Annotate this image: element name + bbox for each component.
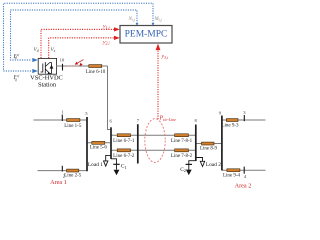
svg-text:Line 2-5: Line 2-5 (64, 173, 82, 178)
svg-text:Line 1-5: Line 1-5 (64, 124, 82, 129)
svg-text:Line 9-4: Line 9-4 (223, 173, 241, 178)
svg-text:Line 7-8-2: Line 7-8-2 (171, 154, 193, 159)
svg-text:Load 2: Load 2 (206, 162, 221, 168)
svg-text:Line 6-7-1: Line 6-7-1 (113, 139, 135, 144)
svg-text:Line 6-7-2: Line 6-7-2 (113, 154, 135, 159)
svg-text:Line 8-9: Line 8-9 (200, 147, 218, 152)
svg-text:Line 9-3: Line 9-3 (221, 124, 239, 129)
svg-text:Line 7-8-1: Line 7-8-1 (171, 139, 193, 144)
svg-text:Ptie-Line: Ptie-Line (159, 116, 177, 122)
svg-text:C2: C2 (180, 167, 186, 173)
svg-text:Load 1: Load 1 (88, 162, 103, 168)
svg-text:Station: Station (38, 81, 57, 88)
svg-text:10: 10 (60, 57, 65, 62)
svg-text:PEM-MPC: PEM-MPC (125, 30, 168, 40)
svg-text:Area 1: Area 1 (50, 179, 67, 186)
svg-text:Line 6-10: Line 6-10 (86, 70, 106, 75)
svg-text:Line 5-6: Line 5-6 (90, 146, 108, 151)
svg-text:C1: C1 (121, 164, 127, 170)
svg-text:Area 2: Area 2 (235, 183, 252, 190)
